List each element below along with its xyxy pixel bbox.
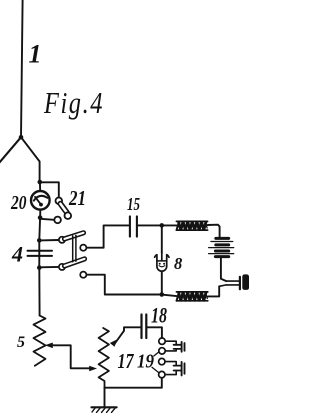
switch lower blade [59, 259, 85, 270]
wire capacitor 15 to node [138, 224, 162, 226]
wire R-bottom to bottom node [162, 295, 177, 297]
wire fork to left edge [0, 137, 21, 162]
arrow from capacitor 18 into 17 [110, 327, 141, 347]
leader line 19 to c4 [152, 367, 159, 372]
wire main line meter to capacitor 4 [38, 218, 41, 241]
node junction above meter 20 [38, 180, 43, 185]
switch upper blade [59, 233, 84, 243]
wire main line capacitor 4 to rheostat 5 [38, 268, 40, 316]
switch contact B [80, 272, 86, 278]
wire c4 to bottom of 17 [105, 378, 162, 388]
svg-text:18: 18 [151, 303, 167, 328]
telephone receiver [226, 274, 249, 290]
svg-text:19: 19 [137, 351, 154, 373]
node junction below capacitor 4 [37, 265, 42, 270]
svg-text:4: 4 [11, 242, 23, 267]
wire junction to switch 21 pivot [40, 182, 59, 197]
key switch 21 (blade with end circles) [54, 198, 71, 224]
wiper arrow of 5 [45, 343, 97, 372]
plug upper [165, 341, 184, 352]
wire junction to upper blade pivot [39, 239, 59, 241]
node bottom bus junction [160, 292, 165, 297]
jack contact c3 [159, 358, 165, 364]
wire antenna lead vertical [21, 0, 23, 137]
wire fork to right down [21, 137, 40, 181]
wire contact A to top bus [86, 225, 128, 247]
resistance grid top [176, 221, 207, 230]
detector 8 top lead [161, 225, 163, 252]
wire 17 bottom to ground [104, 388, 106, 407]
wire junction to contact of 21 [40, 219, 54, 220]
svg-text:20: 20 [10, 192, 26, 214]
jack contact c4 [159, 371, 165, 377]
capacitor 18 [142, 315, 147, 339]
battery 4 cells [209, 238, 234, 256]
meter 20 [31, 182, 50, 216]
jack contact c1 [159, 338, 165, 344]
switch link bars [73, 235, 76, 262]
svg-text:5: 5 [17, 334, 25, 351]
electrolytic detector 8 [155, 253, 169, 272]
jack contact c2 [159, 348, 165, 354]
svg-text:21: 21 [68, 186, 86, 210]
wire battery to phone [221, 258, 226, 281]
node junction below meter 20 [38, 215, 43, 220]
resistance grid bottom [176, 292, 207, 301]
wire node to resistance R-top [162, 224, 177, 226]
rheostat 5 zigzag [34, 316, 46, 366]
switch contact A [80, 245, 86, 251]
plug lower [165, 362, 185, 376]
svg-text:1: 1 [29, 39, 42, 68]
potentiometer 17 zigzag [99, 328, 109, 388]
wire through capacitor 4 [38, 240, 40, 267]
ground [92, 407, 117, 412]
wire R-top to battery [208, 225, 220, 238]
capacitor 15 [130, 216, 137, 236]
wire bottom bus to contact B [86, 275, 161, 295]
node junction above capacitor 4 [37, 238, 42, 243]
wire phone to R-bottom [208, 286, 219, 296]
capacitor 4 [28, 251, 53, 256]
wire junction to lower blade pivot [39, 266, 59, 268]
node antenna fork junction [19, 135, 24, 140]
svg-text:8: 8 [174, 254, 182, 273]
svg-text:17: 17 [118, 349, 135, 373]
svg-text:Fig.4: Fig.4 [43, 85, 104, 120]
svg-text:15: 15 [127, 194, 140, 214]
detector 8 bottom lead [161, 271, 163, 294]
leader line 19 to c2 [154, 352, 159, 356]
node top bus junction [160, 223, 165, 228]
wire capacitor 18 to jack contact [147, 327, 162, 338]
